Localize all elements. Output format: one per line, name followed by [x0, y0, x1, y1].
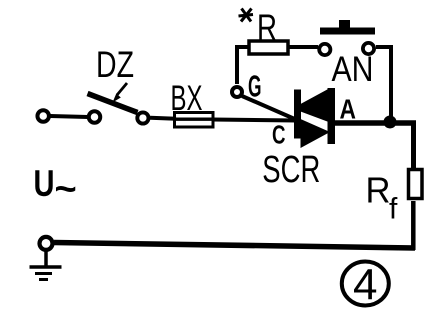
svg-text:R: R — [257, 7, 277, 48]
svg-text:A: A — [340, 94, 357, 125]
svg-text:f: f — [389, 193, 398, 226]
svg-text:BX: BX — [171, 79, 203, 118]
svg-text:~: ~ — [55, 169, 77, 211]
svg-text:C: C — [272, 122, 286, 150]
svg-text:U: U — [34, 163, 55, 204]
svg-text:SCR: SCR — [262, 149, 320, 191]
svg-text:R: R — [366, 170, 391, 211]
svg-text:AN: AN — [332, 50, 374, 89]
svg-text:G: G — [248, 69, 262, 104]
svg-text:4: 4 — [353, 261, 377, 310]
svg-text:DZ: DZ — [96, 44, 134, 85]
